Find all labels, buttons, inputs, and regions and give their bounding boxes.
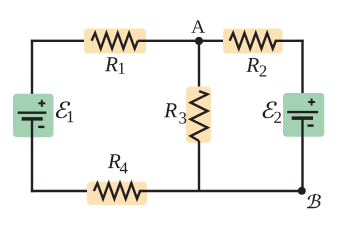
resistor R1 <box>84 29 146 54</box>
label R3 <box>164 103 177 117</box>
wire left lower <box>31 120 33 191</box>
label R4 <box>108 154 121 168</box>
label A <box>191 20 205 32</box>
wire bottom-left segment <box>32 190 94 192</box>
wire right upper <box>301 41 303 111</box>
label B <box>307 194 321 209</box>
battery E2 <box>283 93 324 137</box>
wire middle lower <box>198 141 200 191</box>
resistor R2 <box>223 29 283 54</box>
resistor R4 <box>87 182 147 205</box>
wire bottom-right segment <box>140 190 302 192</box>
wire middle upper <box>198 41 200 91</box>
label R1 <box>105 57 118 71</box>
label E1 <box>55 101 73 122</box>
label R2 <box>246 58 259 72</box>
resistor R3 <box>186 87 211 143</box>
node B <box>298 187 306 195</box>
node A <box>195 37 203 45</box>
battery E1 <box>13 94 54 137</box>
wire right lower <box>301 119 303 191</box>
wire top-right segment <box>276 40 303 42</box>
label E2 <box>262 101 281 123</box>
wire top-middle segment <box>138 40 230 42</box>
wire left upper <box>31 41 33 112</box>
wire top-left segment <box>32 40 93 42</box>
